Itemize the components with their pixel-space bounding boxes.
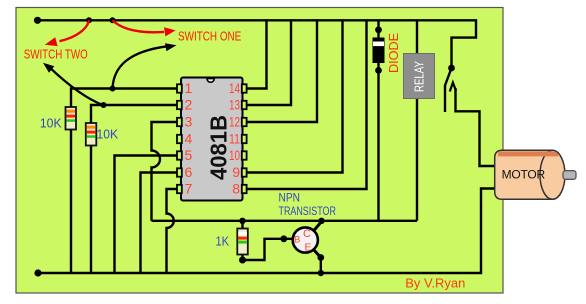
svg-text:3: 3	[185, 113, 193, 129]
svg-text:RELAY: RELAY	[413, 60, 427, 92]
svg-text:4081B: 4081B	[206, 115, 232, 180]
IC pin numbers right 14-8	[229, 80, 240, 196]
wire: pin 2 to resistor R2	[91, 105, 179, 124]
motor shaft	[563, 171, 576, 180]
wire: pin 8 up to rail	[247, 21, 367, 189]
svg-text:C: C	[303, 228, 311, 240]
svg-text:5: 5	[185, 147, 193, 163]
IC notch	[207, 79, 214, 83]
node: 1K top junction dot	[239, 218, 245, 224]
svg-text:TRANSISTOR: TRANSISTOR	[279, 206, 336, 218]
wire: pin 5 to 0V rail	[115, 156, 179, 274]
wire: pin 12 up to rail	[247, 21, 318, 122]
base blob dot	[280, 235, 287, 242]
node: relay switch pivot dot	[448, 65, 455, 72]
wire: diode top lead	[377, 21, 379, 38]
svg-text:B: B	[294, 234, 300, 245]
resistor R3 1K	[237, 221, 248, 260]
resistor R1 10K	[66, 107, 77, 130]
wire: pin 7 to 0V rail with hop over output wire	[167, 189, 179, 273]
wire: pin 6 to 0V rail	[141, 173, 179, 274]
wire: pin 13 up to rail	[247, 21, 292, 105]
svg-text:12: 12	[229, 113, 240, 129]
svg-text:4: 4	[185, 130, 193, 146]
wire: R2 bottom lead to 0V rail	[90, 145, 92, 274]
wire: top positive rail with right jog down to relay switch	[38, 20, 477, 65]
switch two annotation arrow (black)	[49, 67, 104, 106]
transistor body circle	[293, 227, 318, 252]
node: 1K bottom dot	[239, 257, 246, 264]
node: emitter bend dot	[317, 254, 324, 261]
node: battery negative terminal dot	[34, 269, 41, 276]
wire: pin 3 output with hop, down to base line	[152, 122, 179, 221]
svg-text:2: 2	[185, 96, 193, 112]
emitter lead	[314, 250, 321, 258]
relay switch lever	[445, 68, 452, 112]
collector lead	[314, 222, 322, 232]
switch one pointer arrow (red)	[113, 20, 165, 32]
svg-text:13: 13	[229, 96, 240, 112]
switch two pointer arrow (red)	[60, 20, 90, 41]
svg-text:14: 14	[229, 80, 240, 96]
svg-text:1: 1	[185, 80, 193, 96]
wire: diode bottom lead down to output wire	[377, 63, 379, 221]
circuit board panel	[16, 8, 503, 294]
emitter wire to 0V rail	[320, 258, 322, 274]
wire: 0V bottom rail up to motor lower terminal	[38, 189, 494, 274]
svg-text:MOTOR: MOTOR	[502, 167, 546, 181]
svg-text:E: E	[305, 241, 312, 253]
wire: pin 1 to resistor R1	[71, 89, 179, 108]
resistor R2 10K	[86, 123, 97, 146]
motor M1 body	[495, 150, 565, 199]
svg-text:9: 9	[232, 164, 240, 180]
svg-text:NPN: NPN	[279, 193, 300, 205]
wire: base wire from 1K to transistor	[243, 239, 294, 260]
relay switch fixed contact	[450, 83, 456, 92]
wire: relay switch contact to motor upper terminal	[456, 88, 495, 166]
node: battery positive terminal dot	[34, 17, 41, 24]
svg-text:10K: 10K	[97, 126, 119, 141]
wire: main output horizontal to relay coil	[152, 220, 418, 222]
node: diode bottom lead dot	[375, 67, 382, 74]
svg-text:7: 7	[185, 180, 193, 196]
IC U1 4081B body	[181, 78, 243, 201]
node: switch two rail dot	[86, 17, 92, 23]
diode D1	[373, 38, 384, 63]
svg-text:SWITCH ONE: SWITCH ONE	[178, 29, 241, 44]
svg-text:6: 6	[185, 164, 193, 180]
wire: relay coil top lead	[416, 21, 418, 54]
svg-text:1K: 1K	[216, 234, 230, 249]
wire: pin 14 up to rail	[247, 21, 267, 89]
svg-text:11: 11	[229, 130, 240, 146]
wire: relay coil bottom lead	[416, 98, 418, 221]
svg-text:By V.Ryan: By V.Ryan	[405, 276, 465, 291]
transistor Q1	[280, 222, 321, 274]
IC pin numbers left 1-7	[185, 80, 193, 196]
relay coil box	[404, 54, 435, 99]
svg-text:10K: 10K	[40, 116, 62, 131]
svg-text:8: 8	[232, 180, 240, 196]
wire: R1 bottom lead to 0V rail	[70, 129, 72, 273]
svg-text:10: 10	[229, 147, 240, 163]
wire: pin 9 up to rail	[247, 21, 343, 173]
svg-text:DIODE: DIODE	[387, 33, 401, 73]
node: dot on pin2 wire	[101, 102, 107, 108]
IC pin stubs right	[242, 84, 247, 193]
node: emitter on 0V rail dot	[318, 270, 324, 276]
node: switch one rail dot	[110, 17, 116, 23]
switch one annotation arrow (black)	[113, 46, 168, 88]
node: diode top lead dot	[375, 26, 382, 33]
IC pin stubs left	[177, 84, 182, 193]
svg-text:SWITCH TWO: SWITCH TWO	[24, 47, 88, 62]
node: collector junction dot	[318, 218, 324, 224]
node: dot on pin1 wire	[110, 86, 116, 92]
